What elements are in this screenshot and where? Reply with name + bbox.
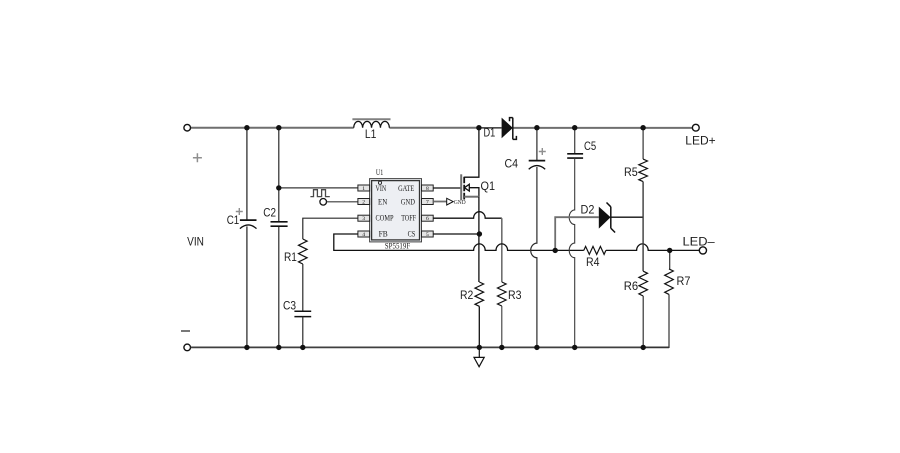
svg-text:R1: R1 [284,251,297,264]
svg-text:R3: R3 [508,289,522,302]
svg-text:8: 8 [426,186,429,192]
svg-text:VIN: VIN [187,236,204,249]
svg-text:GND: GND [454,200,466,206]
svg-text:U1: U1 [376,168,383,177]
svg-text:C5: C5 [584,140,597,153]
svg-text:C2: C2 [263,207,276,220]
svg-text:C1: C1 [227,214,240,227]
svg-text:R7: R7 [677,275,691,288]
svg-text:Q1: Q1 [481,180,496,193]
svg-text:SP5519F: SP5519F [385,241,411,250]
svg-text:D1: D1 [484,127,496,140]
svg-text:D2: D2 [581,203,595,216]
svg-text:1: 1 [362,186,365,192]
svg-text:5: 5 [426,232,429,238]
svg-text:LED+: LED+ [685,135,715,148]
svg-text:CS: CS [408,229,416,238]
svg-text:3: 3 [362,216,365,222]
svg-text:R6: R6 [624,280,638,293]
svg-text:R5: R5 [624,166,638,179]
svg-text:R4: R4 [586,256,600,269]
svg-text:VIN: VIN [376,184,387,193]
svg-text:LED–: LED– [683,235,716,248]
svg-text:L1: L1 [365,128,377,141]
svg-text:C4: C4 [505,157,519,170]
svg-text:TOFF: TOFF [401,214,416,223]
svg-text:2: 2 [362,200,365,206]
svg-text:7: 7 [426,200,429,206]
svg-text:R2: R2 [460,289,473,302]
svg-text:GND: GND [401,198,415,207]
svg-text:6: 6 [426,216,429,222]
svg-text:GATE: GATE [398,184,414,193]
svg-text:4: 4 [362,232,365,238]
svg-text:EN: EN [378,198,387,207]
svg-text:FB: FB [379,229,388,238]
svg-text:C3: C3 [283,300,296,313]
svg-text:COMP: COMP [376,214,394,223]
